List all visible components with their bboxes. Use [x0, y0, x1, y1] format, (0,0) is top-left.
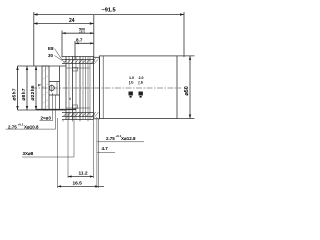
svg-text:P: P — [38, 83, 41, 88]
label 2-d3 leader line — [40, 93, 53, 121]
flange outline top — [62, 56, 94, 58]
dimension 16.5 line — [58, 185, 105, 187]
flange bottom band hatch — [64, 113, 90, 117]
dimension ~91.5 overall length line — [34, 13, 185, 15]
flange top band hatch — [64, 60, 90, 64]
terminal mark 2 — [139, 92, 143, 98]
svg-text:+0.1: +0.1 — [18, 122, 24, 126]
extension line at body front face — [93, 15, 95, 58]
label 3xd8 leader line — [22, 112, 74, 157]
dimension 11.2 line — [68, 175, 94, 177]
bearing top mark — [73, 68, 78, 72]
motor body outline — [100, 56, 178, 119]
front plate outline — [42, 66, 49, 110]
shaft circlip groove — [56, 82, 58, 96]
gear housing bottom edge — [49, 109, 66, 111]
dimension 500 line — [62, 32, 94, 34]
svg-text:1.0: 1.0 — [129, 76, 134, 80]
left diameter dimension line 1 — [16, 66, 18, 110]
svg-text:X⌀10.8: X⌀10.8 — [24, 124, 39, 129]
svg-text:3X⌀8: 3X⌀8 — [23, 151, 34, 156]
svg-text:2.0: 2.0 — [139, 76, 144, 80]
gear housing top edge — [49, 65, 66, 67]
centerline — [31, 87, 181, 89]
shaft bottom line — [49, 94, 60, 96]
bearing bottom mark — [73, 105, 78, 109]
label 2.75 x d12.8 leader line — [97, 117, 144, 188]
gear housing bottom shadow edge — [36, 109, 76, 111]
flange band bottom inner — [62, 112, 94, 114]
dimension 24 line — [34, 22, 94, 24]
dimension 8.7 line — [75, 42, 94, 44]
dimension 16.5 extension lines — [57, 118, 59, 188]
label 2.75 x d10.8 leader line — [6, 95, 56, 129]
svg-text:E8: E8 — [48, 46, 54, 51]
svg-text:⌀22h6: ⌀22h6 — [30, 85, 36, 100]
flange internal verticals — [65, 57, 67, 120]
diameter 50 dimension line — [189, 56, 191, 119]
svg-text:⌀5h7: ⌀5h7 — [12, 88, 18, 100]
keyway hole circle — [49, 85, 54, 90]
diameter 50 extension bottom — [177, 118, 195, 120]
svg-text:16.5: 16.5 — [73, 180, 83, 186]
left diameter dimension line 3 — [35, 66, 37, 110]
svg-text:4.7: 4.7 — [102, 146, 109, 151]
svg-text:2.75: 2.75 — [8, 124, 17, 129]
extension line flange front — [61, 31, 63, 58]
flange bottom stubs — [63, 120, 88, 122]
front cap outline — [94, 57, 100, 119]
extension line top for diameters — [18, 65, 50, 67]
keyway hole axis — [51, 84, 53, 92]
svg-text:~91.5: ~91.5 — [102, 8, 116, 14]
svg-text:2.75: 2.75 — [106, 136, 115, 141]
svg-text:24: 24 — [69, 18, 75, 24]
flange inner bottom line — [66, 107, 90, 109]
shaft top line — [49, 81, 60, 83]
svg-text:2=⌀3: 2=⌀3 — [41, 116, 52, 121]
flange rear vertical — [89, 57, 91, 120]
svg-text:X⌀12.8: X⌀12.8 — [121, 136, 136, 141]
left diameter dimension line 2 — [26, 66, 28, 110]
svg-text:11.2: 11.2 — [79, 171, 88, 177]
svg-text:8.7: 8.7 — [76, 37, 83, 42]
front cap hatch top — [91, 58, 99, 64]
flange inner top line — [66, 67, 90, 69]
front plate mid line — [45, 66, 47, 110]
extension line bottom for diameters — [18, 109, 50, 111]
extension line at x 75.5 — [74, 41, 76, 60]
gear housing step vertical — [59, 66, 61, 110]
front plate hatching — [42, 67, 49, 110]
svg-text:⌀50: ⌀50 — [184, 86, 190, 95]
flange outline bottom — [62, 119, 94, 121]
svg-text:30: 30 — [48, 53, 54, 58]
terminal mark 1 — [129, 92, 133, 98]
flange band top inner — [62, 59, 94, 61]
front cap hatch bottom — [91, 112, 99, 118]
diameter 50 extension top — [177, 55, 195, 57]
svg-text:⌀8h7: ⌀8h7 — [21, 88, 27, 100]
motor body front seam — [102, 56, 104, 119]
extension line right of overall dim — [183, 12, 185, 57]
extension line left of overall dims — [33, 12, 35, 66]
dimension 11.2 extension lines — [67, 112, 69, 178]
